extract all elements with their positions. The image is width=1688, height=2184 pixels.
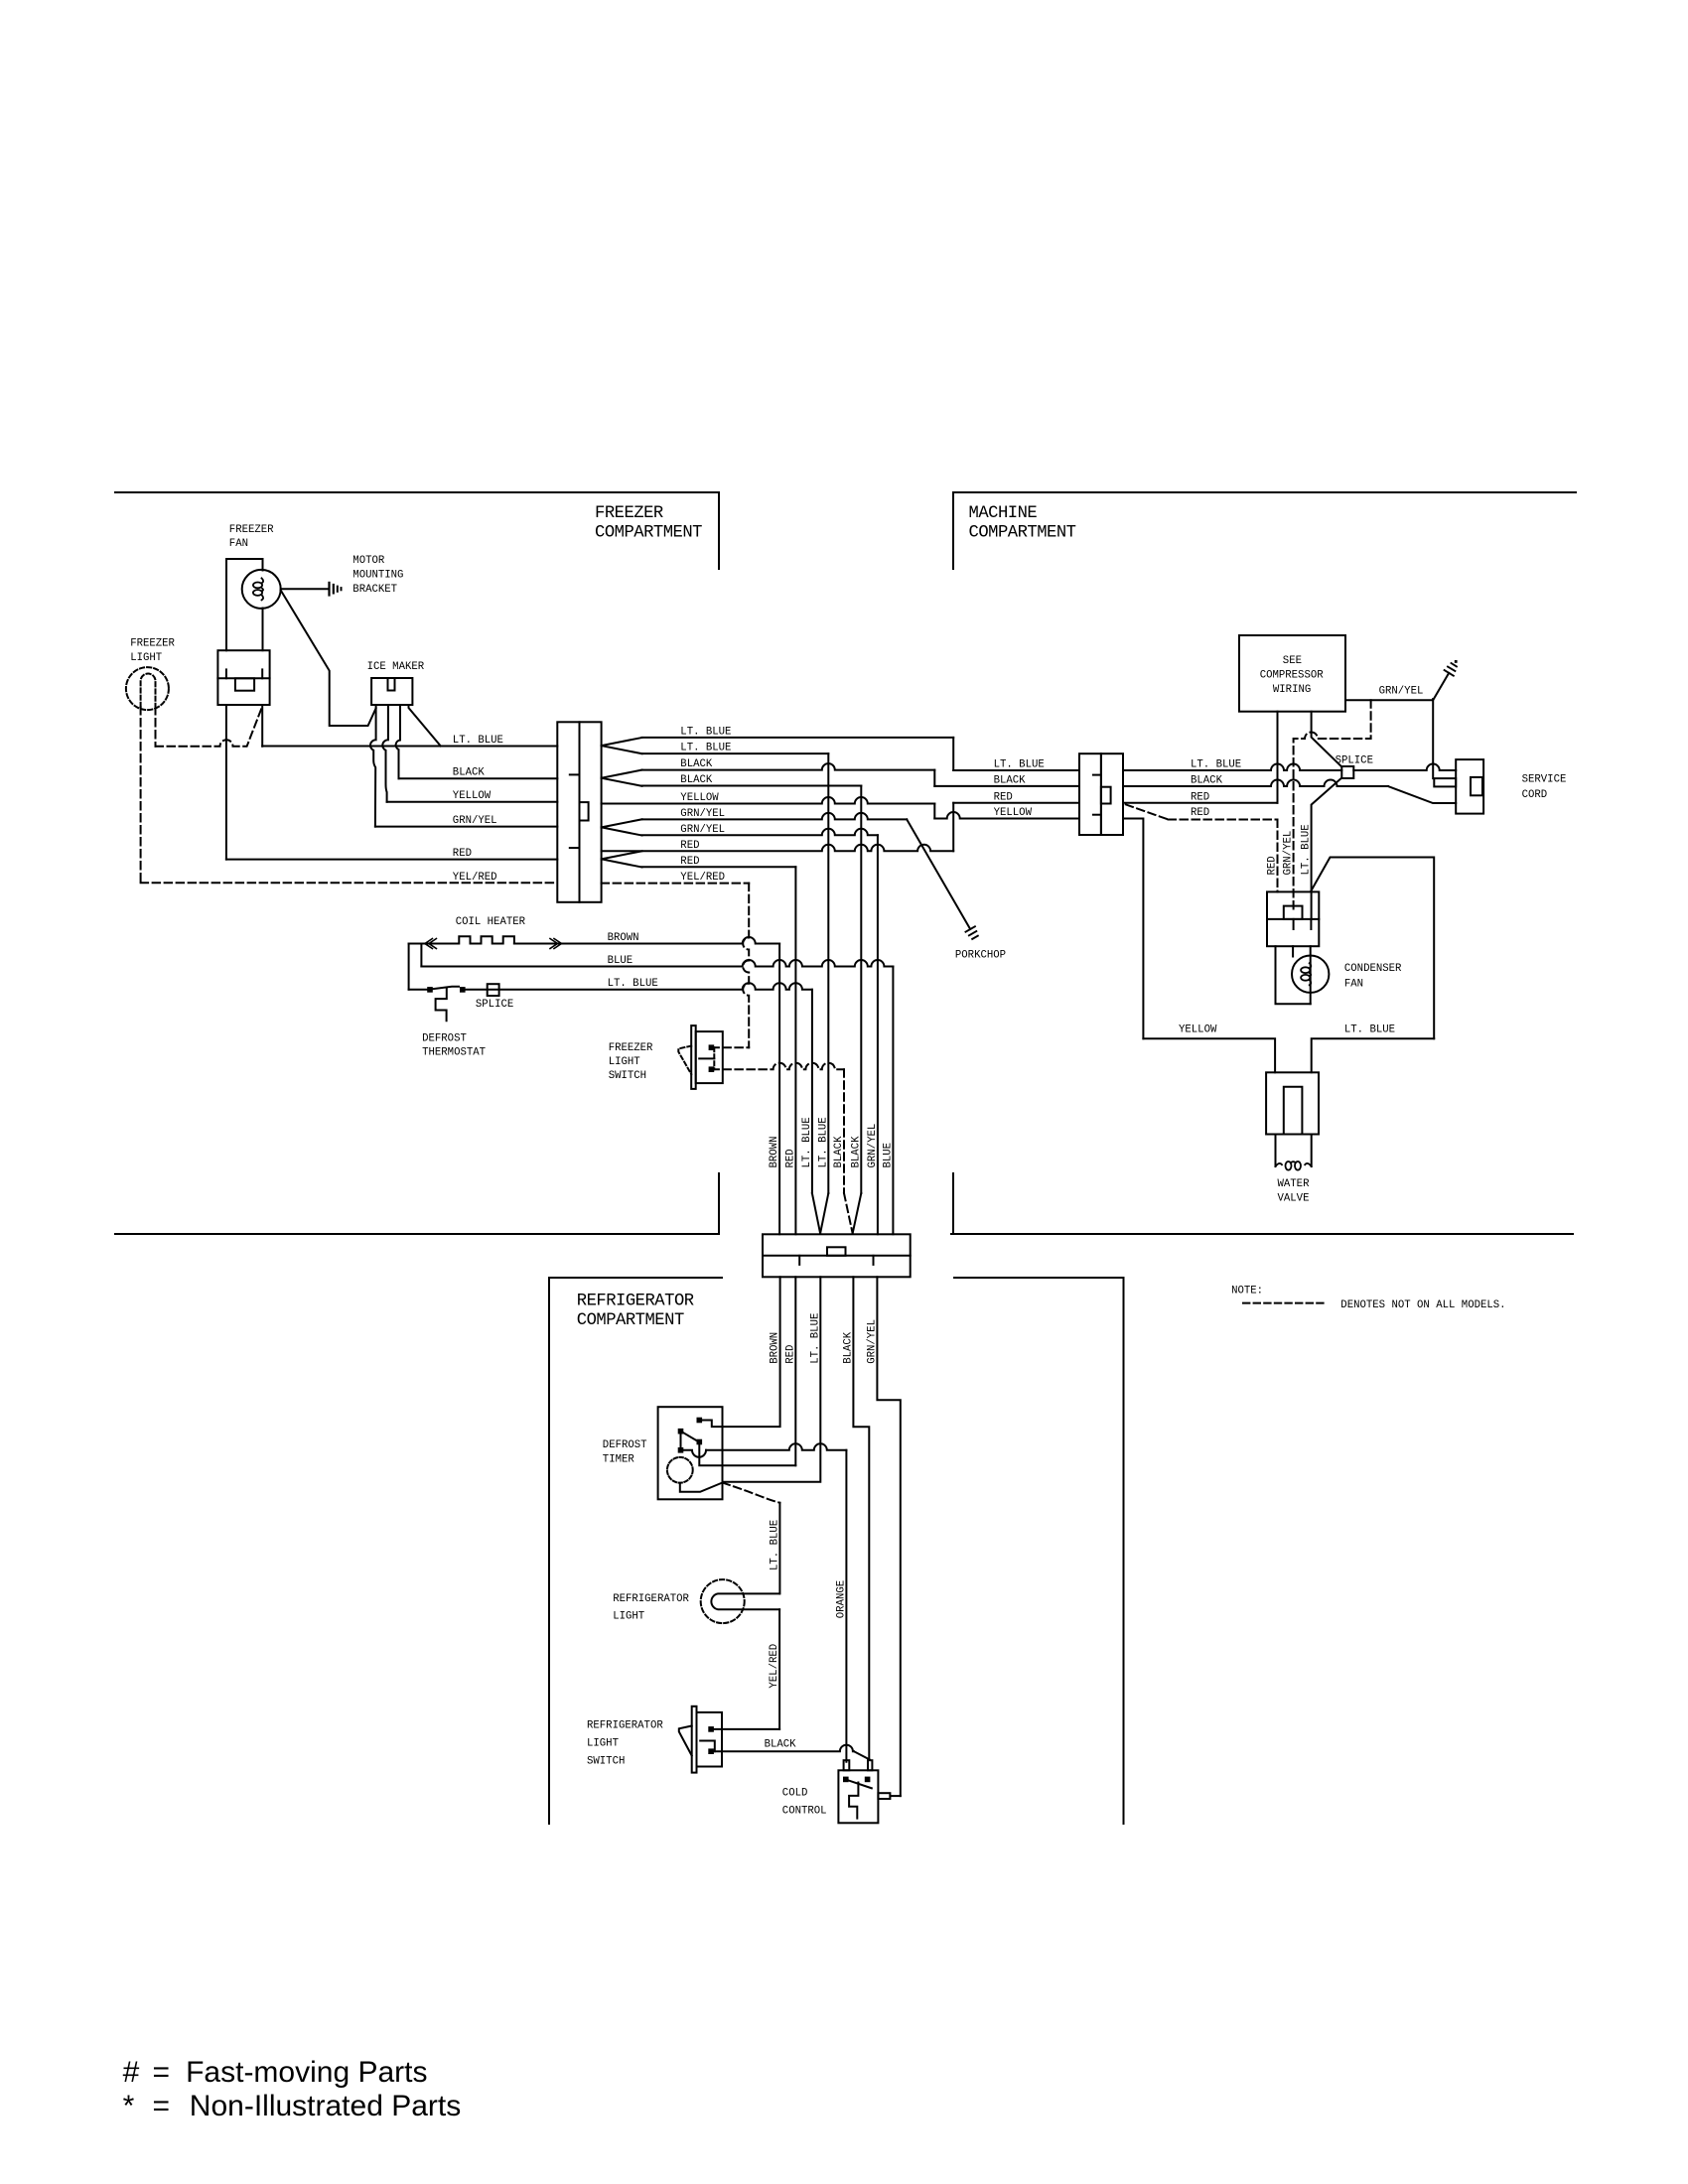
arrow pair LT. BLUE — [602, 738, 642, 746]
svg-text:*: * — [123, 2090, 135, 2122]
svg-text:MOUNTING: MOUNTING — [352, 570, 403, 582]
svg-text:LT. BLUE: LT. BLUE — [680, 726, 731, 738]
svg-text:CONTROL: CONTROL — [782, 1806, 827, 1818]
wire YEL/RED vertical — [743, 884, 749, 1048]
svg-text:DEFROST: DEFROST — [603, 1439, 647, 1451]
svg-text:Non-Illustrated Parts: Non-Illustrated Parts — [190, 2090, 461, 2122]
compressor terminal box — [1267, 891, 1319, 946]
svg-text:=: = — [153, 2056, 171, 2089]
wire LT. BLUE a to machine — [642, 737, 954, 739]
wire switch bottom dashed to black1 — [711, 1063, 844, 1070]
svg-text:LT. BLUE: LT. BLUE — [453, 735, 503, 747]
svg-text:GRN/YEL: GRN/YEL — [1379, 686, 1424, 698]
svg-text:FREEZER: FREEZER — [229, 524, 274, 536]
wire machine RED dashed — [1126, 804, 1169, 819]
wire LT. BLUE heater vertical — [811, 990, 813, 1193]
svg-text:LT. BLUE: LT. BLUE — [608, 978, 658, 990]
wire freezer fan loop — [226, 559, 263, 650]
wire LT. BLUE dashed to refrigerator light — [723, 1483, 780, 1503]
wire bracket to ice maker pin1 (grn/yel ground run) — [281, 591, 376, 727]
wire LT. BLUE b vertical — [827, 753, 829, 1193]
refrigerator compartment border — [549, 1278, 722, 1824]
svg-text:FAN: FAN — [1344, 979, 1363, 991]
svg-text:GRN/YEL: GRN/YEL — [867, 1124, 879, 1168]
svg-text:NOTE:: NOTE: — [1231, 1286, 1263, 1297]
svg-text:COLD: COLD — [782, 1788, 808, 1800]
wire BLACK switch to cold control — [711, 1745, 854, 1752]
svg-text:RED: RED — [784, 1345, 796, 1364]
svg-text:LIGHT: LIGHT — [613, 1611, 644, 1623]
svg-text:FAN: FAN — [229, 538, 248, 550]
wire BROWN vertical — [778, 944, 780, 1235]
wire LT. BLUE b down — [642, 752, 829, 754]
svg-text:LIGHT: LIGHT — [130, 652, 162, 664]
svg-text:YELLOW: YELLOW — [1179, 1024, 1217, 1036]
wire YEL/RED dashed — [141, 882, 558, 884]
wire GRN/YEL down to service cord blade — [1432, 699, 1434, 778]
wire RED to defrost timer — [794, 1277, 796, 1465]
defrost thermostat — [427, 987, 433, 993]
svg-text:ORANGE: ORANGE — [835, 1580, 847, 1618]
svg-text:MOTOR: MOTOR — [352, 555, 385, 567]
wire LT. BLUE branch to condenser rail — [1312, 858, 1435, 1039]
wire machine RED row — [1123, 802, 1278, 804]
svg-text:GRN/YEL: GRN/YEL — [867, 1319, 879, 1364]
condenser fan motor — [1292, 956, 1329, 993]
svg-text:BLACK: BLACK — [994, 774, 1027, 786]
porkchop ground — [966, 926, 975, 931]
water valve — [1266, 1072, 1319, 1134]
wire switch top to yel/red — [711, 1728, 779, 1730]
wire fan right lead to LT. BLUE — [261, 705, 263, 747]
svg-text:BLACK: BLACK — [765, 1739, 797, 1751]
taper LT. BLUE pair — [812, 1193, 820, 1234]
ice maker pin2 wire to YELLOW — [382, 705, 388, 802]
svg-text:RED: RED — [680, 840, 699, 852]
svg-text:GRN/YEL: GRN/YEL — [680, 824, 725, 836]
coil heater + wire BROWN — [409, 936, 514, 943]
wire RED b down — [642, 866, 796, 868]
svg-text:WIRING: WIRING — [1273, 684, 1311, 696]
wire LT. BLUE heater row — [408, 944, 410, 990]
svg-text:GRN/YEL: GRN/YEL — [1283, 831, 1295, 876]
svg-text:RED: RED — [680, 856, 699, 868]
connector J1 freezer — [557, 722, 579, 902]
wire LT. BLUE to defrost timer — [723, 1277, 821, 1482]
svg-text:LT. BLUE: LT. BLUE — [1344, 1024, 1395, 1036]
wire YELLOW — [387, 801, 558, 803]
wire YELLOW to machine — [602, 797, 935, 803]
svg-text:DEFROST: DEFROST — [422, 1033, 467, 1045]
svg-text:TIMER: TIMER — [603, 1454, 635, 1466]
wire LT. BLUE splice down to box — [1312, 778, 1342, 919]
wire RED solid from box — [1277, 712, 1279, 803]
svg-text:RED: RED — [994, 791, 1013, 803]
wire GRN/YEL down — [877, 1277, 900, 1796]
wire machine BLACK row — [1123, 780, 1388, 786]
cold control — [838, 1770, 878, 1823]
svg-text:ICE MAKER: ICE MAKER — [367, 661, 425, 673]
ice maker — [371, 678, 412, 705]
wire RED — [226, 859, 557, 861]
wire GRN/YEL a to porkchop — [642, 813, 908, 819]
svg-text:MACHINE: MACHINE — [969, 504, 1038, 523]
svg-text:BROWN: BROWN — [769, 1137, 780, 1168]
svg-text:COMPRESSOR: COMPRESSOR — [1260, 670, 1325, 682]
svg-text:RED: RED — [1191, 807, 1209, 819]
wire ORANGE down to cold control — [845, 1450, 847, 1762]
svg-text:SWITCH: SWITCH — [609, 1070, 646, 1082]
wire BLACK b down — [642, 785, 862, 787]
svg-text:RED: RED — [1267, 856, 1279, 875]
svg-text:BLACK: BLACK — [833, 1136, 845, 1168]
svg-text:COMPARTMENT: COMPARTMENT — [969, 524, 1076, 543]
freezer compartment border — [115, 492, 719, 569]
ice maker pin4 wire diagonal to LT. BLUE — [409, 705, 441, 747]
svg-text:BLUE: BLUE — [608, 955, 633, 967]
see compressor wiring box — [1239, 635, 1345, 712]
svg-text:=: = — [153, 2090, 171, 2122]
freezer light right lead to fan connector — [155, 707, 157, 747]
arrow pair RED — [602, 851, 642, 859]
freezer light filament + leads — [141, 674, 156, 707]
arrow pair GRN/YEL — [602, 819, 642, 827]
svg-text:GRN/YEL: GRN/YEL — [453, 815, 497, 827]
svg-text:Fast-moving Parts: Fast-moving Parts — [186, 2056, 427, 2089]
timer internal wires — [680, 1432, 682, 1450]
svg-text:SERVICE: SERVICE — [1522, 774, 1567, 786]
taper BLACK pair — [844, 1193, 853, 1234]
motor mounting bracket wire — [281, 588, 329, 590]
wire RED vertical — [794, 867, 796, 1234]
svg-text:YEL/RED: YEL/RED — [680, 872, 725, 884]
service cord — [1456, 759, 1483, 814]
machine compartment border — [953, 492, 1576, 569]
wire BLUE — [420, 944, 422, 967]
refrigerator light lamp — [701, 1579, 745, 1623]
wire switch top dashed to yel/red — [711, 1046, 749, 1048]
svg-text:BLUE: BLUE — [882, 1143, 894, 1168]
svg-text:#: # — [123, 2056, 140, 2089]
wire LT. BLUE — [262, 746, 557, 748]
wire BLACK dashed vertical — [843, 1069, 845, 1193]
wire machine LT. BLUE row — [1123, 764, 1341, 770]
svg-text:BLACK: BLACK — [1191, 774, 1223, 786]
defrost timer — [658, 1407, 723, 1499]
svg-text:PORKCHOP: PORKCHOP — [955, 950, 1006, 962]
svg-text:FREEZER: FREEZER — [595, 504, 663, 523]
svg-text:RED: RED — [1191, 791, 1209, 803]
svg-text:CONDENSER: CONDENSER — [1344, 963, 1402, 975]
svg-text:COIL HEATER: COIL HEATER — [456, 916, 526, 928]
svg-text:THERMOSTAT: THERMOSTAT — [422, 1047, 486, 1059]
wire fan left lead to RED — [225, 705, 227, 860]
wire BLACK down — [853, 1277, 869, 1759]
svg-text:SPLICE: SPLICE — [1336, 755, 1373, 767]
freezer light lamp — [126, 667, 169, 710]
ice maker pin3 wire to BLACK — [396, 705, 400, 778]
wire GRN/YEL from box to ground — [1345, 673, 1449, 700]
svg-text:SPLICE: SPLICE — [476, 999, 513, 1011]
svg-text:BRACKET: BRACKET — [352, 584, 397, 596]
svg-text:BLACK: BLACK — [850, 1136, 862, 1168]
svg-text:FREEZER: FREEZER — [130, 638, 175, 650]
svg-text:LT. BLUE: LT. BLUE — [769, 1520, 780, 1570]
svg-text:BROWN: BROWN — [608, 932, 639, 944]
wire RED a to machine — [602, 845, 954, 852]
svg-text:REFRIGERATOR: REFRIGERATOR — [577, 1292, 694, 1310]
arrow pair BLACK — [602, 770, 642, 778]
wire GRN/YEL dashed from box down — [1294, 700, 1371, 913]
refrigerator light switch S3 — [692, 1706, 697, 1773]
svg-text:BLACK: BLACK — [680, 758, 713, 770]
water valve coil — [1276, 1163, 1283, 1166]
motor mounting bracket ground — [328, 583, 330, 596]
wire GRN/YEL b down — [642, 829, 878, 836]
bottom rail yellow/lt.blue — [1143, 1038, 1275, 1072]
svg-text:YELLOW: YELLOW — [994, 807, 1033, 819]
svg-text:LT. BLUE: LT. BLUE — [994, 759, 1045, 771]
svg-text:COMPARTMENT: COMPARTMENT — [595, 524, 702, 543]
freezer light switch S2 — [691, 1025, 696, 1089]
svg-text:BLACK: BLACK — [842, 1331, 854, 1364]
svg-text:SWITCH: SWITCH — [587, 1756, 625, 1768]
svg-text:LT. BLUE: LT. BLUE — [1191, 759, 1241, 771]
wire BLACK b vertical — [860, 786, 862, 1194]
wire BLACK — [399, 777, 558, 779]
svg-text:LT. BLUE: LT. BLUE — [680, 743, 731, 754]
wire YELLOW down to rail — [1123, 819, 1143, 1039]
svg-text:SEE: SEE — [1283, 655, 1302, 667]
freezer light left lead down to yel/red — [140, 707, 142, 883]
svg-text:DENOTES NOT ON ALL MODELS.: DENOTES NOT ON ALL MODELS. — [1340, 1299, 1505, 1311]
connector J3 middle — [763, 1234, 911, 1277]
splice square machine — [1341, 766, 1353, 778]
svg-text:GRN/YEL: GRN/YEL — [680, 808, 725, 820]
wire BLUE vertical — [892, 967, 894, 1235]
svg-text:FREEZER: FREEZER — [609, 1042, 653, 1054]
machine connector J2 — [1079, 753, 1101, 835]
svg-text:RED: RED — [453, 848, 472, 860]
wire GRN/YEL vertical — [877, 835, 879, 1234]
svg-text:REFRIGERATOR: REFRIGERATOR — [613, 1593, 689, 1605]
svg-text:WATER: WATER — [1278, 1178, 1311, 1190]
svg-text:LT. BLUE: LT. BLUE — [817, 1117, 829, 1167]
timer motor — [667, 1457, 693, 1483]
svg-text:YEL/RED: YEL/RED — [453, 872, 497, 884]
svg-text:BLACK: BLACK — [680, 774, 713, 786]
freezer fan connector — [217, 650, 269, 705]
svg-text:LT. BLUE: LT. BLUE — [801, 1117, 813, 1167]
wire YEL/RED dashed to light switch — [602, 883, 750, 885]
svg-text:RED: RED — [784, 1149, 796, 1167]
wire LT. BLUE from box to splice diagonal — [1312, 712, 1342, 767]
ice maker pin1 wire to GRN/YEL — [370, 705, 376, 827]
wire BLACK a to machine — [642, 763, 935, 770]
svg-text:YEL/RED: YEL/RED — [769, 1644, 780, 1689]
svg-text:YELLOW: YELLOW — [680, 792, 719, 804]
splice square freezer — [488, 984, 499, 996]
svg-text:VALVE: VALVE — [1278, 1193, 1310, 1205]
svg-text:CORD: CORD — [1522, 789, 1548, 801]
svg-text:COMPARTMENT: COMPARTMENT — [577, 1311, 684, 1330]
svg-text:LT. BLUE: LT. BLUE — [1301, 824, 1313, 875]
svg-text:BLACK: BLACK — [453, 767, 486, 779]
wire BROWN to defrost timer — [703, 1277, 780, 1427]
condenser fan wires — [1276, 946, 1311, 1004]
freezer fan motor M1 — [242, 570, 281, 609]
svg-text:LIGHT: LIGHT — [609, 1056, 640, 1068]
svg-text:LIGHT: LIGHT — [587, 1738, 619, 1750]
svg-text:LT. BLUE: LT. BLUE — [809, 1313, 821, 1364]
svg-text:REFRIGERATOR: REFRIGERATOR — [587, 1720, 663, 1732]
svg-text:YELLOW: YELLOW — [453, 790, 492, 802]
wire GRN/YEL — [375, 826, 557, 828]
wire YEL/RED down to switch — [778, 1609, 780, 1729]
svg-text:BROWN: BROWN — [770, 1332, 781, 1364]
